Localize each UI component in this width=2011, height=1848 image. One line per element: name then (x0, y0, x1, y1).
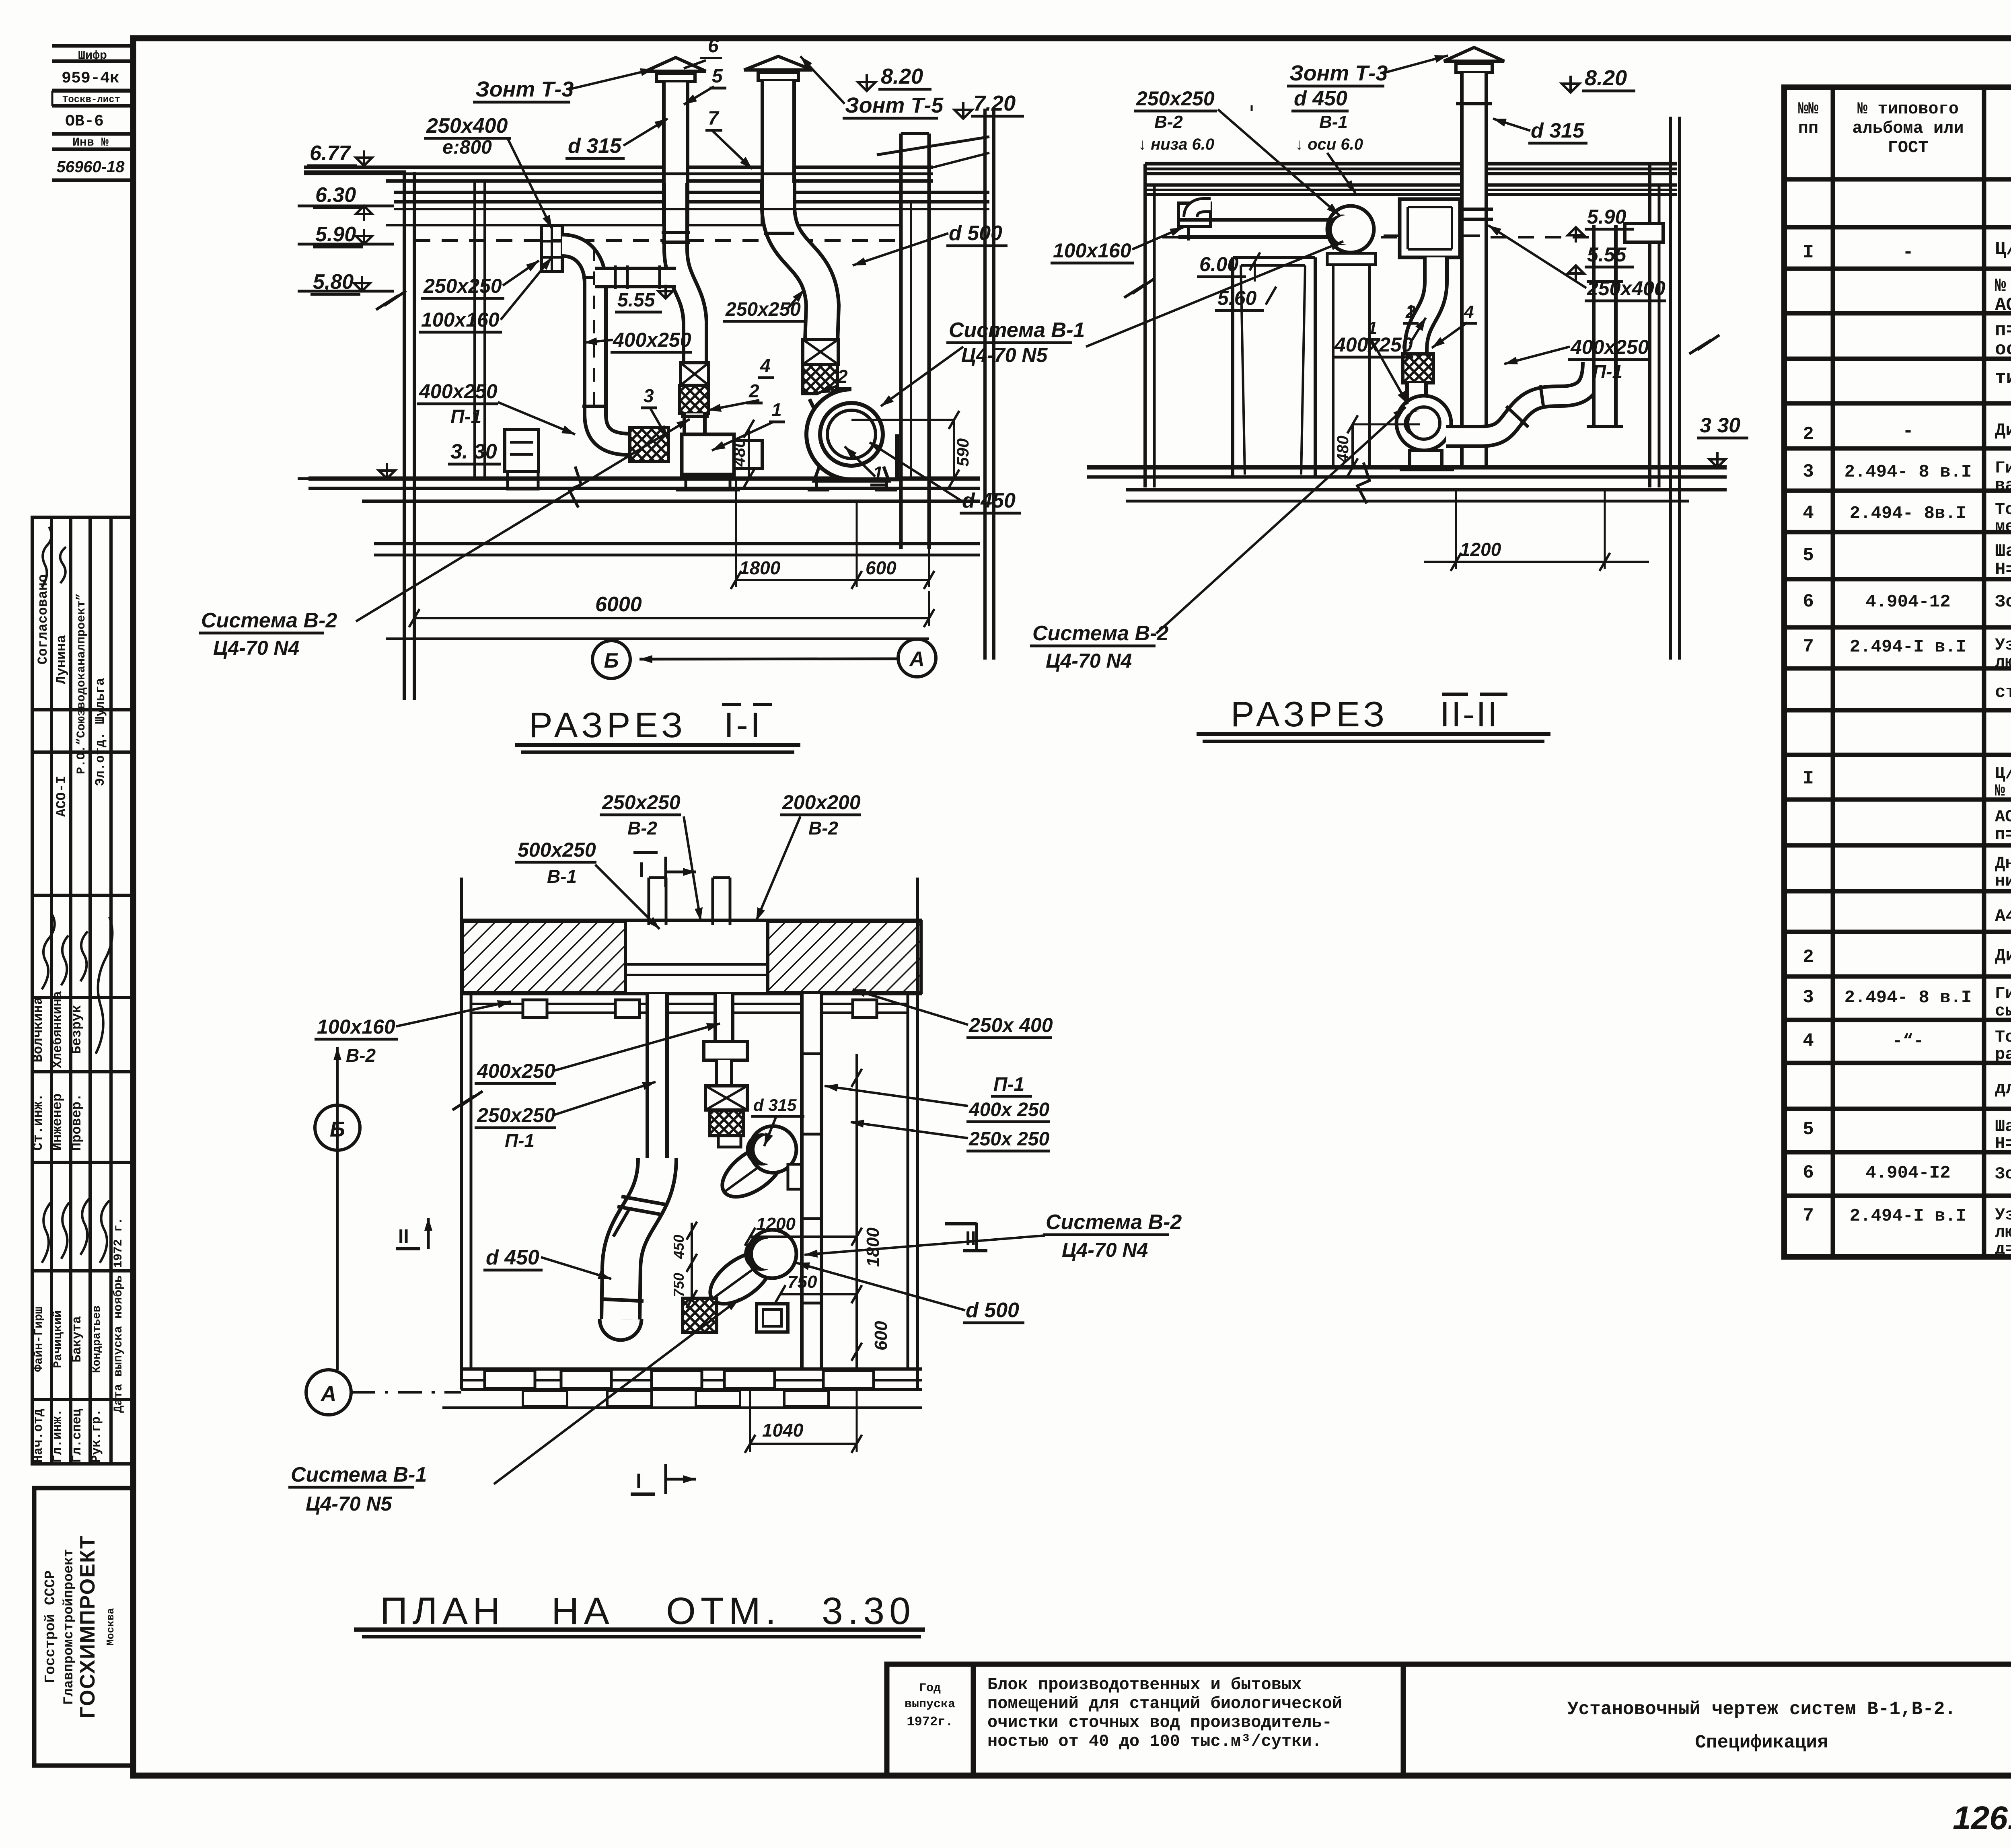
svg-text:5: 5 (712, 66, 723, 87)
svg-text:п=935 об/мин.с колесом: п=935 об/мин.с колесом (1995, 825, 2011, 844)
svg-text:-“-: -“- (1892, 1031, 1924, 1051)
svg-text:2.494- 8 в.I: 2.494- 8 в.I (1844, 988, 1972, 1008)
svg-text:ОТМ.: ОТМ. (666, 1590, 781, 1632)
svg-text:1972г.: 1972г. (907, 1714, 953, 1729)
svg-text:Шахта вытяжная д=500: Шахта вытяжная д=500 (1995, 541, 2011, 561)
svg-text:↓ низа 6.0: ↓ низа 6.0 (1138, 136, 1214, 153)
svg-text:Система В-2: Система В-2 (201, 609, 337, 632)
svg-text:Нач.отд: Нач.отд (31, 1409, 46, 1463)
svg-text:Ц4-70 N4: Ц4-70 N4 (1062, 1239, 1148, 1261)
svg-text:2: 2 (1803, 424, 1814, 445)
svg-text:дл.=240 мм: дл.=240 мм (1995, 1079, 2011, 1099)
svg-text:959-4к: 959-4к (62, 70, 119, 88)
svg-text:2.494-I в.I: 2.494-I в.I (1850, 637, 1966, 657)
svg-text:П-1: П-1 (993, 1074, 1024, 1095)
svg-text:Узел прохода через кров-: Узел прохода через кров- (1995, 635, 2011, 655)
svg-text:100х160: 100х160 (317, 1015, 395, 1038)
svg-text:В-2: В-2 (346, 1045, 376, 1066)
svg-text:НА: НА (551, 1590, 614, 1632)
svg-text:сывании ф 400 дл.=270мм: сывании ф 400 дл.=270мм (1995, 1001, 2011, 1021)
svg-text:12617-04 18: 12617-04 18 (1953, 1800, 2011, 1836)
svg-text:П-1: П-1 (450, 406, 481, 428)
svg-text:II: II (398, 1226, 409, 1247)
svg-text:5,80: 5,80 (313, 270, 354, 294)
svg-text:Госстрой СССР: Госстрой СССР (42, 1570, 59, 1684)
svg-text:Система В-2: Система В-2 (1046, 1211, 1182, 1234)
svg-text:Зонт вытяжной Т-3: Зонт вытяжной Т-3 (1995, 1164, 2011, 1184)
svg-text:d 500: d 500 (966, 1299, 1019, 1322)
svg-text:3: 3 (644, 385, 654, 406)
svg-text:400х250: 400х250 (477, 1060, 555, 1082)
svg-text:То же, на нагнетании: То же, на нагнетании (1995, 1028, 2011, 1047)
svg-text:3: 3 (1803, 987, 1814, 1008)
svg-text:250х250: 250х250 (1136, 87, 1215, 110)
svg-text:В-2: В-2 (1154, 112, 1183, 132)
svg-text:В-1: В-1 (547, 866, 577, 887)
svg-text:д=400: д=400 (1995, 1240, 2011, 1259)
svg-text:II-II: II-II (1440, 694, 1499, 734)
svg-text:Ц4-70 N5: Ц4-70 N5 (961, 344, 1048, 366)
svg-text:Н=8 м: Н=8 м (1995, 1134, 2011, 1153)
svg-text:Ц4-70 N4: Ц4-70 N4 (1046, 650, 1132, 672)
svg-text:Главпромстройпроект: Главпромстройпроект (62, 1549, 77, 1705)
svg-text:1: 1 (771, 399, 782, 420)
svg-text:Зонт Т-5: Зонт Т-5 (845, 93, 944, 117)
svg-text:400х250: 400х250 (1570, 336, 1649, 358)
svg-text:е:800: е:800 (442, 137, 492, 158)
svg-text:Лунина: Лунина (54, 635, 70, 684)
svg-text:помещений для станций биологич: помещений для станций биологической (987, 1694, 1342, 1713)
svg-text:I: I (636, 1470, 642, 1493)
svg-text:6: 6 (708, 35, 719, 57)
svg-text:5: 5 (1803, 1119, 1814, 1140)
svg-text:ГОСХИМПРОЕКТ: ГОСХИМПРОЕКТ (76, 1535, 99, 1718)
svg-text:А: А (320, 1382, 337, 1406)
svg-text:Гибкая вставка на всасы-: Гибкая вставка на всасы- (1995, 458, 2011, 478)
svg-text:500х250: 500х250 (518, 839, 596, 861)
svg-text:Рук.гр.: Рук.гр. (89, 1409, 104, 1463)
svg-text:Узел прохода через кров-: Узел прохода через кров- (1995, 1205, 2011, 1225)
svg-text:вании ф 500 дл.=320 мм: вании ф 500 дл.=320 мм (1995, 476, 2011, 495)
svg-text:6.77: 6.77 (310, 142, 351, 165)
svg-text:Дата выпуска ноябрь 1972 г.: Дата выпуска ноябрь 1972 г. (112, 1217, 125, 1413)
svg-text:Согласовано: Согласовано (36, 574, 51, 664)
svg-text:400х 250: 400х 250 (968, 1099, 1050, 1120)
svg-text:5.55: 5.55 (617, 290, 656, 311)
svg-text:ПЛАН: ПЛАН (380, 1590, 505, 1632)
svg-text:Дн=1,05 с виброоснова-: Дн=1,05 с виброоснова- (1995, 854, 2011, 873)
svg-text:АОЛ2-11-6 №=0,4 квт;: АОЛ2-11-6 №=0,4 квт; (1995, 807, 2011, 826)
svg-text:250х400: 250х400 (426, 114, 508, 138)
svg-text:d 450: d 450 (962, 489, 1016, 512)
svg-text:250х400: 250х400 (1587, 277, 1666, 300)
svg-text:Р.О.“Союзводоканалпроект”: Р.О.“Союзводоканалпроект” (75, 593, 88, 774)
svg-text:Гл.инж.: Гл.инж. (50, 1409, 65, 1463)
svg-text:Н= 8 м: Н= 8 м (1995, 560, 2011, 580)
svg-text:6: 6 (1803, 1162, 1814, 1183)
svg-text:мером 350х350 дл.=300мм: мером 350х350 дл.=300мм (1995, 517, 2011, 537)
svg-text:3.30: 3.30 (822, 1590, 915, 1632)
svg-text:Москва: Москва (105, 1608, 117, 1646)
svg-text:2: 2 (837, 366, 848, 387)
svg-text:Установочный чертеж систем В-1: Установочный чертеж систем В-1,В-2. (1567, 1699, 1956, 1720)
svg-text:П-1: П-1 (505, 1130, 535, 1151)
svg-text:выпуска: выпуска (905, 1698, 955, 1711)
svg-text:250х250: 250х250 (725, 299, 801, 320)
svg-text:Гибкая вставка на вса-: Гибкая вставка на вса- (1995, 984, 2011, 1003)
svg-text:1040: 1040 (762, 1420, 804, 1441)
svg-text:П-1: П-1 (1593, 361, 1622, 382)
svg-text:Рачицкий: Рачицкий (51, 1310, 65, 1368)
svg-text:1200: 1200 (1460, 539, 1501, 560)
svg-text:100х160: 100х160 (1053, 239, 1131, 262)
svg-text:400х250: 400х250 (613, 329, 691, 351)
svg-text:I: I (1803, 768, 1814, 789)
svg-text:Б: Б (604, 649, 619, 672)
svg-text:6000: 6000 (595, 593, 642, 616)
svg-text:Система В-1: Система В-1 (291, 1463, 427, 1486)
svg-text:Файн-Гирш: Файн-Гирш (32, 1307, 46, 1372)
svg-text:2.494-I в.I: 2.494-I в.I (1850, 1206, 1966, 1226)
svg-text:Зонт Т-3: Зонт Т-3 (1289, 61, 1388, 85)
svg-text:№ 5 с эл.двигателем: № 5 с эл.двигателем (1995, 275, 2011, 296)
svg-text:Ц4-70 N4: Ц4-70 N4 (213, 637, 299, 659)
svg-text:5.55: 5.55 (1587, 243, 1627, 266)
svg-text:АСО-I: АСО-I (54, 776, 70, 817)
svg-text:А: А (909, 648, 925, 671)
svg-text:d 315: d 315 (753, 1096, 797, 1114)
svg-text:Провер.: Провер. (70, 1094, 85, 1151)
svg-text:Год: Год (919, 1681, 941, 1695)
svg-text:6.30: 6.30 (315, 183, 356, 207)
svg-text:То же на нагнетании раз-: То же на нагнетании раз- (1995, 500, 2011, 519)
svg-text:590: 590 (953, 438, 972, 467)
svg-text:В-1: В-1 (1319, 112, 1348, 132)
svg-text:4: 4 (1464, 302, 1474, 322)
svg-text:4.904-I2: 4.904-I2 (1865, 1163, 1950, 1183)
svg-text:1: 1 (1367, 318, 1377, 338)
svg-text:А4105-I: А4105-I (1995, 907, 2011, 927)
svg-text:4: 4 (1803, 1030, 1814, 1051)
svg-text:альбома или: альбома или (1852, 119, 1964, 138)
svg-text:7.20: 7.20 (973, 91, 1016, 115)
svg-text:400х250: 400х250 (419, 380, 498, 403)
svg-text:7: 7 (708, 108, 720, 129)
svg-text:6.00: 6.00 (1199, 253, 1239, 275)
svg-text:250х250: 250х250 (423, 275, 502, 297)
svg-text:В-2: В-2 (808, 818, 839, 839)
svg-text:лю тип Т-315 стакан: лю тип Т-315 стакан (1995, 1223, 2011, 1242)
svg-text:I-I: I-I (724, 705, 763, 745)
svg-text:Эл.отд. Шульга: Эл.отд. Шульга (93, 678, 108, 786)
svg-text:750: 750 (788, 1272, 817, 1292)
svg-text:3: 3 (1803, 461, 1814, 482)
svg-text:1800: 1800 (739, 557, 781, 578)
svg-text:очистки сточных вод производит: очистки сточных вод производитель- (987, 1713, 1332, 1732)
svg-text:250х 250: 250х 250 (968, 1129, 1050, 1150)
svg-text:Шахта вытяжная д=315: Шахта вытяжная д=315 (1995, 1117, 2011, 1136)
svg-text:Шифр: Шифр (78, 49, 107, 63)
svg-text:размером 280х280: размером 280х280 (1995, 1045, 2011, 1064)
svg-text:2: 2 (748, 380, 759, 401)
svg-text:Ц/б вентилятор Ц4-70: Ц/б вентилятор Ц4-70 (1995, 764, 2011, 783)
svg-text:стакан д=700: стакан д=700 (1995, 682, 2011, 703)
svg-text:4: 4 (1803, 503, 1814, 524)
svg-text:В-2: В-2 (627, 818, 658, 839)
svg-text:2.494- 8в.I: 2.494- 8в.I (1850, 504, 1966, 524)
svg-text:Инженер: Инженер (50, 1094, 66, 1151)
svg-text:I: I (1803, 242, 1814, 263)
svg-text:Инв №: Инв № (72, 136, 109, 150)
svg-text:200х200: 200х200 (782, 791, 861, 814)
svg-text:4: 4 (760, 355, 771, 376)
svg-text:Бакута: Бакута (70, 1316, 84, 1362)
svg-text:5.90: 5.90 (1587, 206, 1626, 228)
svg-text:№ 4 с эл.двигателем: № 4 с эл.двигателем (1995, 781, 2011, 801)
svg-text:1200: 1200 (756, 1214, 796, 1234)
svg-text:№ типового: № типового (1857, 99, 1959, 119)
svg-text:2: 2 (1803, 947, 1814, 968)
svg-text:РАЗРЕЗ: РАЗРЕЗ (529, 705, 687, 745)
svg-text:600: 600 (871, 1321, 891, 1351)
svg-text:450: 450 (670, 1235, 687, 1259)
svg-text:ГОСТ: ГОСТ (1888, 138, 1929, 157)
svg-text:нием агрегат тип: нием агрегат тип (1995, 872, 2011, 891)
svg-text:5: 5 (1803, 545, 1814, 566)
svg-text:d 315: d 315 (568, 134, 622, 158)
svg-text:II: II (965, 1228, 976, 1249)
svg-text:РАЗРЕЗ: РАЗРЕЗ (1231, 694, 1388, 734)
svg-text:Система В-2: Система В-2 (1032, 622, 1168, 645)
svg-text:3 30: 3 30 (1700, 414, 1740, 437)
svg-text:п=930 об/мин.с вибро-: п=930 об/мин.с вибро- (1995, 320, 2011, 341)
svg-text:7: 7 (1803, 636, 1814, 657)
svg-text:7: 7 (1803, 1205, 1814, 1226)
svg-text:ОВ-6: ОВ-6 (65, 113, 104, 131)
svg-text:Ц/б вентилятор Ц4-70: Ц/б вентилятор Ц4-70 (1995, 239, 2011, 260)
svg-text:пп: пп (1798, 119, 1818, 138)
svg-text:6: 6 (1803, 591, 1814, 612)
svg-text:Диафрагма к вентилятору: Диафрагма к вентилятору (1995, 421, 2011, 441)
svg-text:56960-18: 56960-18 (56, 158, 125, 176)
svg-text:Гл.спец: Гл.спец (70, 1409, 84, 1463)
svg-text:d 315: d 315 (1531, 119, 1585, 142)
svg-text:Система В-1: Система В-1 (949, 319, 1085, 342)
svg-text:↓ оси 6.0: ↓ оси 6.0 (1295, 136, 1363, 153)
svg-text:Кондратьев: Кондратьев (91, 1305, 103, 1373)
svg-text:основанием агрегат: основанием агрегат (1995, 339, 2011, 360)
svg-text:Тоскв-лист: Тоскв-лист (62, 95, 120, 105)
svg-text:I: I (639, 858, 644, 882)
svg-text:3. 30: 3. 30 (450, 440, 497, 463)
svg-text:Безрук: Безрук (70, 1005, 85, 1054)
svg-text:2.494- 8 в.I: 2.494- 8 в.I (1844, 462, 1972, 482)
svg-text:лю тип Т-500: лю тип Т-500 (1995, 653, 2011, 672)
svg-text:750: 750 (670, 1273, 687, 1297)
svg-text:1800: 1800 (863, 1227, 883, 1267)
svg-text:250х250: 250х250 (477, 1104, 555, 1126)
svg-text:ностью от 40 до 100 тыс.м³/сут: ностью от 40 до 100 тыс.м³/сутки. (987, 1732, 1322, 1751)
svg-text:d 500: d 500 (949, 222, 1002, 245)
svg-text:480: 480 (730, 438, 748, 467)
svg-text:-: - (1902, 421, 1914, 442)
svg-text:Блок производотвенных и бытов: Блок производотвенных и бытовых (987, 1675, 1302, 1694)
svg-text:Ст.инж.: Ст.инж. (31, 1094, 46, 1151)
svg-text:Спецификация: Спецификация (1695, 1732, 1828, 1753)
svg-text:Волчкина: Волчкина (31, 997, 46, 1062)
svg-text:250х 400: 250х 400 (968, 1014, 1053, 1036)
svg-text:Хлебянкина: Хлебянкина (50, 991, 65, 1068)
svg-text:8.20: 8.20 (881, 64, 923, 88)
svg-text:Ц4-70 N5: Ц4-70 N5 (306, 1492, 393, 1515)
svg-text:тип А5100-I: тип А5100-I (1995, 368, 2011, 389)
svg-text:Диафрагма к вентилятору: Диафрагма к вентилятору (1995, 946, 2011, 966)
svg-text:1: 1 (873, 463, 883, 483)
svg-text:600: 600 (866, 557, 897, 578)
svg-text:5.90: 5.90 (315, 223, 356, 246)
svg-text:d 450: d 450 (1294, 87, 1347, 110)
svg-text:250х250: 250х250 (602, 791, 681, 814)
svg-text:Зонт Т-5: Зонт Т-5 (1995, 592, 2011, 612)
svg-text:-: - (1902, 242, 1914, 263)
svg-text:АОЛ2-21-6; №=0,8квт;: АОЛ2-21-6; №=0,8квт; (1995, 295, 2011, 316)
svg-text:№№: №№ (1798, 99, 1819, 119)
svg-text:d 450: d 450 (486, 1246, 539, 1269)
svg-text:100х160: 100х160 (421, 308, 500, 331)
svg-text:Зонт Т-3: Зонт Т-3 (475, 77, 574, 101)
svg-text:4.904-12: 4.904-12 (1865, 592, 1950, 612)
svg-text:8.20: 8.20 (1585, 66, 1627, 90)
